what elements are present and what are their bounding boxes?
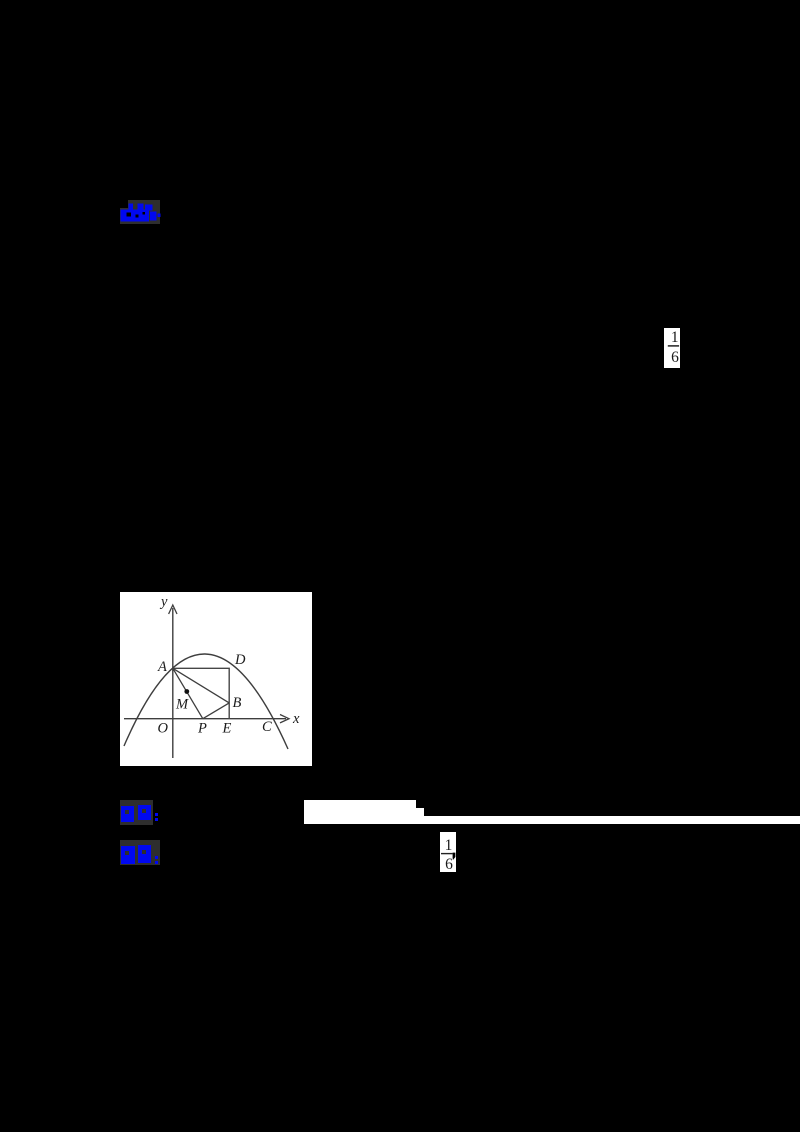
svg-text:y: y xyxy=(159,594,168,610)
y-axis xyxy=(172,608,174,758)
rectangle sides A-D corner-E xyxy=(173,668,229,718)
svg-text:O: O xyxy=(158,721,169,737)
svg-text:C: C xyxy=(262,719,272,735)
parabola xyxy=(124,654,288,749)
svg-text:A: A xyxy=(157,659,167,675)
blue label 考点 with grey highlight xyxy=(120,800,153,825)
svg-text:B: B xyxy=(233,695,242,711)
blue label 分析 with grey highlight xyxy=(120,840,160,865)
svg-text:6: 6 xyxy=(671,349,679,366)
labels xyxy=(157,594,300,737)
svg-text:E: E xyxy=(222,721,232,737)
inline fraction 1/6 (white formula image) xyxy=(664,328,680,368)
svg-text:6: 6 xyxy=(445,856,453,872)
figure: parabola diagram (white box) xyxy=(120,592,312,766)
segment P-B xyxy=(203,703,229,719)
svg-text:M: M xyxy=(175,697,189,713)
segment A-P xyxy=(173,668,203,718)
white highlight band on 考点 row (stepped selection shape) xyxy=(304,800,416,824)
x-axis xyxy=(124,718,286,720)
svg-text:D: D xyxy=(234,652,246,668)
svg-text:P: P xyxy=(197,721,207,737)
svg-text:x: x xyxy=(292,711,300,727)
lower big row xyxy=(121,210,150,222)
point M dot xyxy=(184,689,189,694)
segment A-B xyxy=(173,668,229,703)
inline fraction 1/6 with comma (white formula image) xyxy=(440,832,456,872)
svg-text:1: 1 xyxy=(445,837,453,854)
top solution label block (grey highlight, L-shape) xyxy=(128,200,160,224)
upper small row xyxy=(129,204,134,211)
comma after fraction xyxy=(453,853,456,860)
top solution label: blue overlapped glyphs xyxy=(115,196,165,228)
svg-text:1: 1 xyxy=(671,329,679,346)
